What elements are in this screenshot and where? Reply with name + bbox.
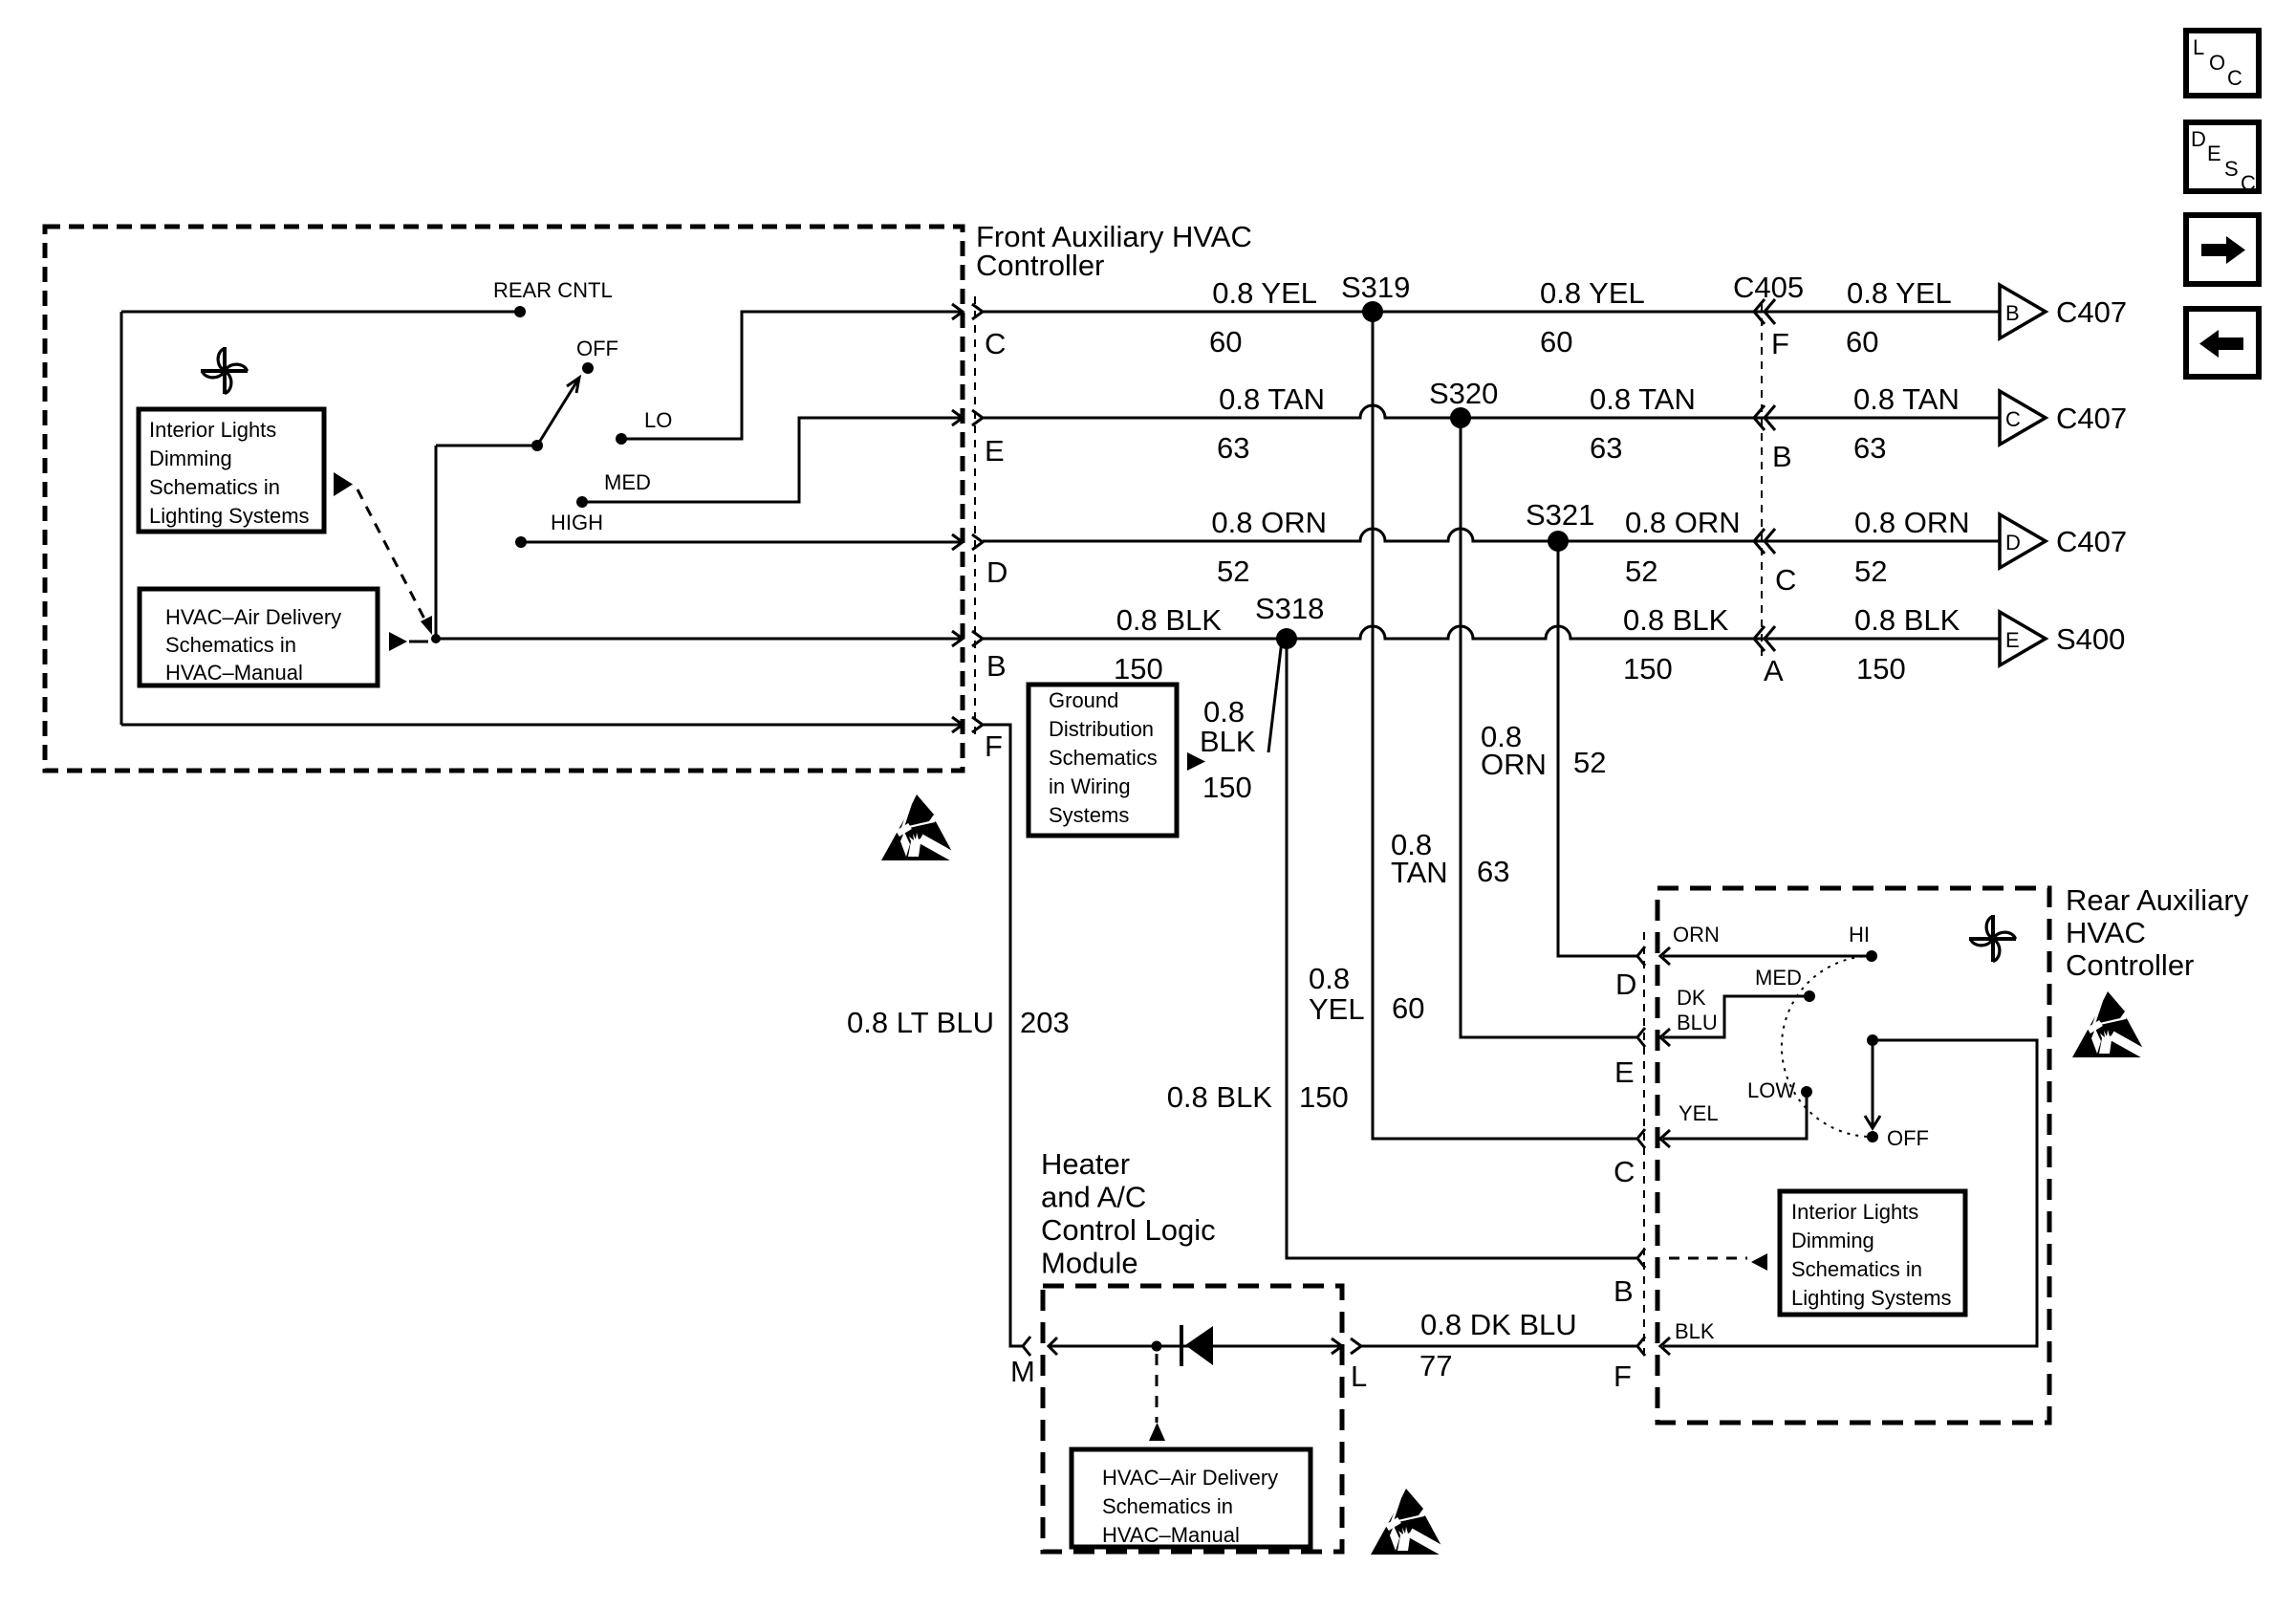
svg-text:LO: LO xyxy=(644,408,672,432)
svg-text:Heater: Heater xyxy=(1041,1147,1130,1181)
svg-text:Interior Lights: Interior Lights xyxy=(149,418,276,442)
svg-text:REAR CNTL: REAR CNTL xyxy=(493,278,613,302)
svg-text:TAN: TAN xyxy=(1391,856,1448,889)
svg-text:YEL: YEL xyxy=(1679,1101,1719,1125)
svg-text:S: S xyxy=(2224,157,2239,181)
svg-text:Lighting Systems: Lighting Systems xyxy=(149,504,310,528)
svg-text:Interior Lights: Interior Lights xyxy=(1791,1200,1918,1224)
svg-text:HVAC–Manual: HVAC–Manual xyxy=(1102,1523,1240,1547)
svg-text:MED: MED xyxy=(1755,966,1802,990)
svg-text:63: 63 xyxy=(1853,431,1886,465)
svg-text:0.8 ORN: 0.8 ORN xyxy=(1211,506,1327,539)
svg-text:E: E xyxy=(1614,1055,1635,1089)
svg-text:F: F xyxy=(1614,1360,1632,1393)
svg-text:C: C xyxy=(2241,171,2256,195)
svg-text:150: 150 xyxy=(1856,652,1906,685)
svg-text:Controller: Controller xyxy=(976,249,1104,282)
svg-text:BLK: BLK xyxy=(1675,1319,1715,1343)
svg-text:B: B xyxy=(1614,1274,1634,1308)
svg-text:63: 63 xyxy=(1590,431,1622,465)
svg-text:0.8 TAN: 0.8 TAN xyxy=(1219,382,1325,416)
svg-text:0.8 TAN: 0.8 TAN xyxy=(1590,382,1696,416)
svg-text:0.8 ORN: 0.8 ORN xyxy=(1854,506,1970,539)
svg-text:150: 150 xyxy=(1623,652,1673,685)
svg-text:150: 150 xyxy=(1114,652,1163,685)
svg-text:F: F xyxy=(985,729,1003,763)
svg-text:0.8: 0.8 xyxy=(1309,962,1350,995)
svg-text:E: E xyxy=(2207,141,2221,165)
svg-text:S400: S400 xyxy=(2056,622,2125,656)
svg-text:S320: S320 xyxy=(1429,377,1498,410)
svg-text:Lighting Systems: Lighting Systems xyxy=(1791,1286,1952,1310)
svg-text:OFF: OFF xyxy=(576,337,618,360)
svg-text:S319: S319 xyxy=(1341,271,1410,304)
svg-text:ORN: ORN xyxy=(1673,923,1720,946)
svg-text:B: B xyxy=(2005,301,2020,325)
svg-text:DK: DK xyxy=(1677,986,1706,1010)
svg-text:150: 150 xyxy=(1299,1080,1349,1114)
svg-text:B: B xyxy=(1772,440,1792,473)
svg-text:60: 60 xyxy=(1540,325,1572,359)
svg-text:HVAC–Manual: HVAC–Manual xyxy=(165,661,303,685)
svg-text:77: 77 xyxy=(1419,1349,1452,1382)
svg-text:E: E xyxy=(985,434,1005,468)
svg-text:Rear Auxiliary: Rear Auxiliary xyxy=(2066,883,2249,917)
svg-text:0.8 TAN: 0.8 TAN xyxy=(1853,382,1960,416)
svg-text:C407: C407 xyxy=(2056,525,2127,558)
svg-text:0.8 LT BLU: 0.8 LT BLU xyxy=(847,1006,994,1039)
svg-text:A: A xyxy=(1764,654,1784,687)
svg-text:C: C xyxy=(1614,1155,1635,1188)
svg-text:63: 63 xyxy=(1477,855,1509,888)
svg-text:Schematics: Schematics xyxy=(1049,746,1158,770)
svg-text:S318: S318 xyxy=(1255,592,1324,625)
svg-text:Schematics in: Schematics in xyxy=(165,633,296,657)
svg-text:HIGH: HIGH xyxy=(551,511,603,534)
svg-text:0.8 BLK: 0.8 BLK xyxy=(1167,1080,1273,1114)
svg-text:Schematics in: Schematics in xyxy=(1102,1494,1233,1518)
svg-text:OFF: OFF xyxy=(1887,1126,1929,1150)
svg-text:C407: C407 xyxy=(2056,402,2127,435)
svg-text:B: B xyxy=(986,649,1007,683)
svg-text:S321: S321 xyxy=(1526,498,1594,532)
svg-text:M: M xyxy=(1010,1355,1035,1388)
svg-text:L: L xyxy=(1351,1360,1367,1393)
svg-text:MED: MED xyxy=(604,470,651,494)
svg-text:HVAC: HVAC xyxy=(2066,916,2146,949)
svg-text:YEL: YEL xyxy=(1309,992,1365,1026)
svg-text:0.8 BLK: 0.8 BLK xyxy=(1116,603,1223,637)
svg-text:0.8 YEL: 0.8 YEL xyxy=(1212,276,1317,310)
svg-text:C: C xyxy=(1775,563,1796,597)
svg-text:Systems: Systems xyxy=(1049,803,1129,827)
svg-text:Dimming: Dimming xyxy=(149,446,232,470)
svg-text:and A/C: and A/C xyxy=(1041,1181,1146,1214)
svg-text:0.8 YEL: 0.8 YEL xyxy=(1847,276,1952,310)
svg-text:HVAC–Air Delivery: HVAC–Air Delivery xyxy=(165,605,341,629)
svg-text:0.8 DK BLU: 0.8 DK BLU xyxy=(1420,1308,1577,1341)
svg-text:Schematics in: Schematics in xyxy=(1791,1257,1922,1281)
svg-text:0.8: 0.8 xyxy=(1203,695,1245,729)
svg-text:C407: C407 xyxy=(2056,295,2127,329)
svg-text:Schematics in: Schematics in xyxy=(149,475,280,499)
svg-text:52: 52 xyxy=(1217,555,1249,588)
svg-text:F: F xyxy=(1771,327,1789,360)
svg-text:63: 63 xyxy=(1217,431,1249,465)
svg-text:0.8 YEL: 0.8 YEL xyxy=(1540,276,1645,310)
svg-text:C405: C405 xyxy=(1733,271,1804,304)
svg-text:Controller: Controller xyxy=(2066,948,2194,982)
svg-text:D: D xyxy=(2191,127,2206,151)
svg-text:Module: Module xyxy=(1041,1247,1138,1280)
svg-text:52: 52 xyxy=(1854,555,1887,588)
svg-text:BLK: BLK xyxy=(1200,725,1256,758)
svg-text:203: 203 xyxy=(1020,1006,1070,1039)
svg-text:Distribution: Distribution xyxy=(1049,717,1154,741)
svg-text:150: 150 xyxy=(1202,771,1252,804)
svg-text:L: L xyxy=(2193,35,2204,59)
svg-text:60: 60 xyxy=(1846,325,1878,359)
svg-text:0.8 ORN: 0.8 ORN xyxy=(1625,506,1741,539)
svg-text:ORN: ORN xyxy=(1481,748,1547,781)
svg-text:HI: HI xyxy=(1849,923,1870,946)
svg-text:LOW: LOW xyxy=(1747,1078,1795,1102)
svg-text:D: D xyxy=(986,555,1007,589)
svg-text:O: O xyxy=(2209,51,2225,75)
svg-text:Dimming: Dimming xyxy=(1791,1229,1874,1252)
svg-text:52: 52 xyxy=(1573,746,1606,779)
svg-text:C: C xyxy=(985,327,1006,360)
svg-text:D: D xyxy=(1615,968,1636,1001)
svg-text:HVAC–Air Delivery: HVAC–Air Delivery xyxy=(1102,1466,1278,1490)
svg-text:52: 52 xyxy=(1625,555,1657,588)
svg-text:E: E xyxy=(2005,628,2020,652)
svg-text:in Wiring: in Wiring xyxy=(1049,774,1131,798)
svg-text:0.8 BLK: 0.8 BLK xyxy=(1623,603,1729,637)
svg-text:Control Logic: Control Logic xyxy=(1041,1213,1216,1247)
svg-text:BLU: BLU xyxy=(1677,1011,1718,1034)
svg-text:60: 60 xyxy=(1209,325,1242,359)
svg-text:60: 60 xyxy=(1392,991,1424,1025)
svg-text:C: C xyxy=(2005,407,2021,431)
svg-text:D: D xyxy=(2005,531,2021,555)
svg-text:Ground: Ground xyxy=(1049,688,1118,712)
svg-text:0.8 BLK: 0.8 BLK xyxy=(1854,603,1960,637)
svg-text:C: C xyxy=(2227,66,2242,90)
